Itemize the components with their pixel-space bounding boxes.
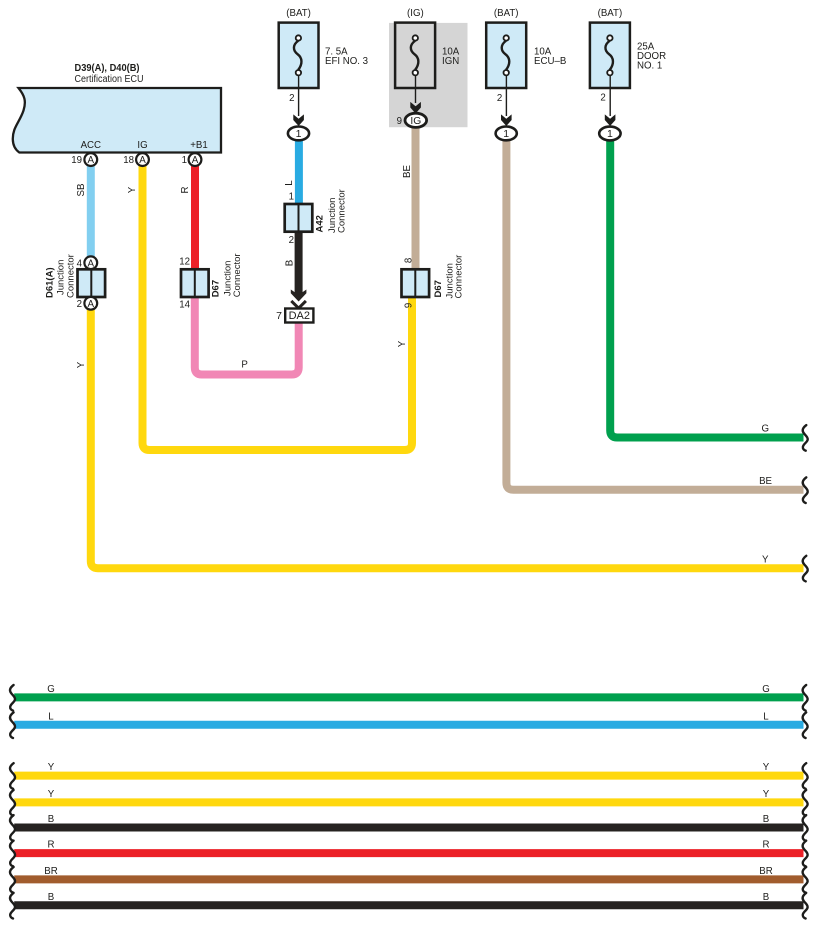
svg-text:G: G <box>761 424 769 435</box>
svg-text:1: 1 <box>503 128 509 140</box>
svg-text:7: 7 <box>276 310 282 322</box>
svg-text:1: 1 <box>607 128 613 140</box>
svg-text:1: 1 <box>182 155 187 166</box>
fuse F2 oval terminal IG pin 9 <box>405 113 427 127</box>
svg-text:ACC: ACC <box>81 140 101 151</box>
break symbol right end of wire G <box>803 425 808 451</box>
svg-text:Y: Y <box>127 186 138 193</box>
svg-text:B: B <box>48 892 54 903</box>
svg-text:(IG): (IG) <box>407 8 424 19</box>
svg-text:EFI NO. 3: EFI NO. 3 <box>325 56 368 67</box>
svg-text:B: B <box>48 814 54 825</box>
svg-text:4: 4 <box>77 258 83 269</box>
IG fuse gray panel <box>389 23 468 127</box>
break symbol right end of wire Y <box>803 556 808 582</box>
svg-text:L: L <box>48 711 54 722</box>
fuse F4 output line pin 2 <box>609 75 611 116</box>
fuse F3 oval terminal 1 <box>496 126 517 140</box>
svg-text:Connector: Connector <box>65 254 76 298</box>
fuse F4 arrow <box>605 114 616 126</box>
svg-text:Connector: Connector <box>232 253 243 297</box>
bottom wire BR run <box>14 875 803 883</box>
svg-text:Y: Y <box>762 554 769 565</box>
svg-text:1: 1 <box>296 128 302 140</box>
svg-text:BR: BR <box>759 866 772 877</box>
svg-text:2: 2 <box>289 93 294 104</box>
svg-text:Y: Y <box>763 789 770 800</box>
svg-text:D61(A): D61(A) <box>44 267 55 298</box>
svg-text:19: 19 <box>71 155 82 166</box>
svg-text:(BAT): (BAT) <box>286 8 311 19</box>
wire SB (ECU ACC pin to D61 junction connector) <box>87 165 95 257</box>
fuse F1 oval terminal 1 <box>288 126 309 140</box>
wire R (ECU +B1 pin to D67 junction connector pin 12) <box>191 165 199 270</box>
svg-text:IGN: IGN <box>442 56 459 67</box>
fuse F2 output line <box>415 75 417 103</box>
svg-text:R: R <box>180 187 191 194</box>
connector DA2 box pin 7 <box>285 309 313 323</box>
bottom wire Y run 1 <box>14 772 803 780</box>
svg-text:2: 2 <box>497 93 502 104</box>
svg-text:1: 1 <box>289 192 294 203</box>
svg-text:2: 2 <box>77 299 82 310</box>
svg-text:L: L <box>284 180 295 186</box>
bottom wire B run 2 <box>14 901 803 909</box>
svg-text:P: P <box>241 360 247 371</box>
svg-text:Y: Y <box>48 762 55 773</box>
bottom wire Y run 2 <box>14 798 803 806</box>
bottom wire G run <box>14 693 803 701</box>
svg-text:Connector: Connector <box>454 255 465 299</box>
wire Y (ECU IG pin down, right, up to D67 junction connector pin 9) <box>143 165 413 450</box>
svg-text:IG: IG <box>410 116 421 127</box>
junction connector A42 box <box>285 204 313 232</box>
wire G (DOOR NO.1 fuse down and right to break) <box>610 140 803 438</box>
svg-text:G: G <box>47 684 55 695</box>
svg-text:18: 18 <box>123 155 134 166</box>
fuse F2 arrow <box>410 102 421 114</box>
solid arrowhead of wire B <box>291 290 307 302</box>
svg-text:Certification ECU: Certification ECU <box>75 74 144 85</box>
svg-text:Y: Y <box>48 789 55 800</box>
svg-text:ECU–B: ECU–B <box>534 56 566 67</box>
wire P (pink, D67 pin 14 down, right, up to DA2) <box>195 295 299 375</box>
svg-text:+B1: +B1 <box>190 140 208 151</box>
svg-text:DA2: DA2 <box>289 310 310 322</box>
svg-text:Y: Y <box>76 361 87 368</box>
svg-text:9: 9 <box>397 116 402 127</box>
svg-text:D67: D67 <box>433 280 444 297</box>
svg-text:Y: Y <box>763 762 770 773</box>
break symbol right end of wire BE <box>803 477 808 503</box>
ECU pin 18 connector A circle <box>136 153 149 166</box>
svg-text:14: 14 <box>179 300 190 311</box>
fuse F1 arrow <box>293 114 304 126</box>
ECU pin 1 connector A circle <box>189 153 202 166</box>
junction connector D61(A) pin 2 circle <box>84 297 97 310</box>
svg-text:D39(A), D40(B): D39(A), D40(B) <box>75 63 140 74</box>
junction connector D61(A) pin 4 circle <box>84 256 97 269</box>
svg-text:R: R <box>48 840 55 851</box>
svg-text:L: L <box>763 711 769 722</box>
wire L (fuse EFI NO.3 to A42 junction connector pin 1) <box>295 140 303 206</box>
svg-text:B: B <box>284 260 295 266</box>
svg-text:B: B <box>763 892 769 903</box>
svg-text:BR: BR <box>44 866 57 877</box>
wire BE (ECU-B fuse down and right to break) <box>506 140 803 490</box>
fuse F3 output line pin 2 <box>505 75 507 116</box>
wire B (black, A42 pin 2 down to DA2) <box>295 230 303 296</box>
svg-text:BE: BE <box>759 476 772 487</box>
svg-text:NO. 1: NO. 1 <box>637 61 662 72</box>
junction connector D61(A) box <box>78 269 106 297</box>
Certification ECU box D39(A)/D40(B) <box>13 88 221 153</box>
wire BE (IGN fuse to D67 junction connector pin 8) <box>412 127 420 270</box>
bottom wire L run <box>14 721 803 729</box>
svg-text:8: 8 <box>403 258 414 263</box>
wire Y (D61 pin 2 down and across page to right break) <box>91 306 804 568</box>
svg-text:2: 2 <box>600 93 605 104</box>
svg-text:Connector: Connector <box>337 189 348 233</box>
svg-text:IG: IG <box>137 140 147 151</box>
svg-text:A42: A42 <box>314 215 325 232</box>
svg-text:BE: BE <box>402 165 413 178</box>
svg-text:12: 12 <box>179 257 190 268</box>
svg-text:2: 2 <box>289 235 294 246</box>
ECU pin 19 connector A circle <box>84 153 97 166</box>
chevron below wire B arrowhead <box>291 301 306 308</box>
bottom wire B run 1 <box>14 824 803 832</box>
svg-text:Y: Y <box>397 340 408 347</box>
svg-text:R: R <box>763 840 770 851</box>
svg-text:D67: D67 <box>211 280 222 297</box>
fuse F3 arrow <box>501 114 512 126</box>
fuse F1 output line pin 2 <box>298 75 300 116</box>
svg-text:(BAT): (BAT) <box>494 8 519 19</box>
svg-text:B: B <box>763 814 769 825</box>
svg-text:9: 9 <box>403 303 414 308</box>
junction connector D67 (right) box <box>402 269 430 297</box>
svg-text:G: G <box>762 684 770 695</box>
fuse F4 oval terminal 1 <box>599 127 620 141</box>
junction connector D67 (left) box <box>181 269 209 297</box>
svg-text:(BAT): (BAT) <box>598 8 623 19</box>
bottom wire R run <box>14 849 803 857</box>
svg-text:SB: SB <box>76 184 87 197</box>
